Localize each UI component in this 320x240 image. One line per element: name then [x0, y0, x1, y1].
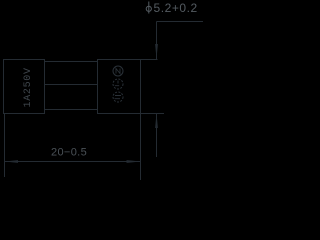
svg-text:5.2+0.2: 5.2+0.2 [154, 1, 198, 15]
svg-text:1A250V: 1A250V [23, 67, 34, 107]
svg-text:20−0.5: 20−0.5 [51, 147, 87, 159]
